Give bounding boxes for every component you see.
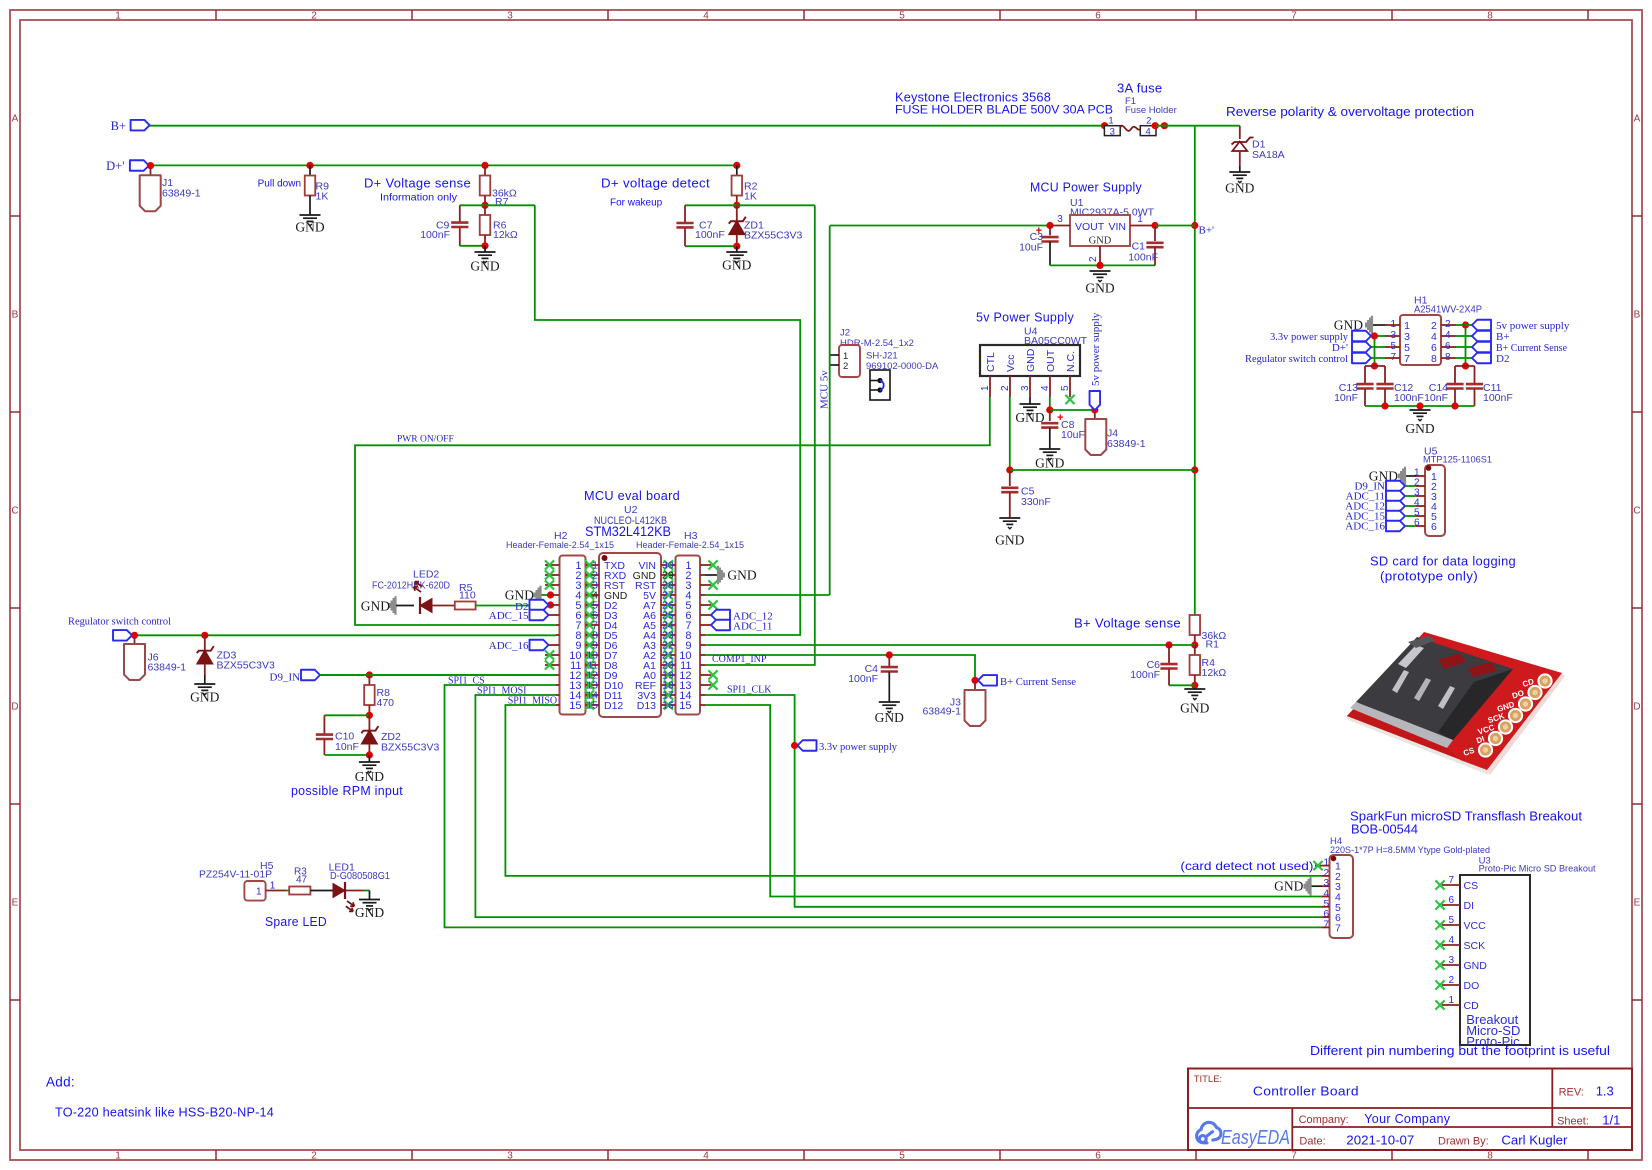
svg-text:8: 8 <box>1487 1151 1493 1162</box>
svg-text:C: C <box>1633 506 1640 517</box>
svg-text:FUSE HOLDER BLADE 500V 30A PCB: FUSE HOLDER BLADE 500V 30A PCB <box>895 103 1113 117</box>
svg-text:B: B <box>12 310 19 321</box>
svg-text:5: 5 <box>1448 915 1454 926</box>
svg-text:ADC_16: ADC_16 <box>1345 521 1385 533</box>
svg-text:100nF: 100nF <box>1128 252 1158 264</box>
svg-text:B+': B+' <box>1199 225 1215 237</box>
svg-text:4: 4 <box>1448 935 1454 946</box>
svg-text:CD: CD <box>1464 1000 1480 1012</box>
svg-text:7: 7 <box>1448 875 1454 886</box>
svg-text:1K: 1K <box>744 191 757 203</box>
svg-text:6: 6 <box>1448 895 1454 906</box>
svg-text:VCC: VCC <box>1464 920 1487 932</box>
svg-text:2: 2 <box>843 361 848 372</box>
svg-text:12kΩ: 12kΩ <box>493 229 518 241</box>
svg-text:D+': D+' <box>106 159 124 173</box>
svg-text:2: 2 <box>1146 116 1151 127</box>
svg-text:Add:: Add: <box>46 1075 75 1090</box>
svg-text:D-G080508G1: D-G080508G1 <box>330 870 390 882</box>
svg-text:100nF: 100nF <box>1394 392 1424 404</box>
svg-text:TITLE:: TITLE: <box>1194 1074 1223 1085</box>
svg-text:D2: D2 <box>1496 353 1509 365</box>
svg-text:C: C <box>11 506 18 517</box>
svg-text:2: 2 <box>1448 975 1454 986</box>
svg-text:VOUT: VOUT <box>1075 221 1105 233</box>
svg-text:15: 15 <box>586 700 598 712</box>
svg-text:330nF: 330nF <box>1021 496 1051 508</box>
svg-text:SA18A: SA18A <box>1252 149 1285 161</box>
svg-text:Header-Female-2.54_1x15: Header-Female-2.54_1x15 <box>636 540 744 551</box>
svg-text:63849-1: 63849-1 <box>162 188 201 200</box>
svg-text:110: 110 <box>459 590 476 602</box>
svg-text:100nF: 100nF <box>420 229 450 241</box>
svg-text:B+: B+ <box>111 119 126 133</box>
svg-text:E: E <box>12 898 19 909</box>
svg-text:GND: GND <box>1464 960 1488 972</box>
svg-text:6: 6 <box>1445 341 1451 352</box>
svg-text:1: 1 <box>1137 214 1143 225</box>
svg-text:(prototype only): (prototype only) <box>1380 569 1478 584</box>
svg-text:Regulator switch control: Regulator switch control <box>68 616 171 628</box>
svg-text:5: 5 <box>1390 341 1396 352</box>
svg-text:GND: GND <box>1025 348 1037 372</box>
svg-text:R1: R1 <box>1206 639 1220 651</box>
svg-text:COMP1_INP: COMP1_INP <box>712 654 767 665</box>
svg-text:100nF: 100nF <box>695 229 725 241</box>
svg-text:63849-1: 63849-1 <box>1107 438 1146 450</box>
svg-text:5: 5 <box>1060 385 1071 391</box>
svg-text:D: D <box>1633 702 1640 713</box>
svg-text:4: 4 <box>703 1151 709 1162</box>
svg-text:6: 6 <box>1431 521 1437 533</box>
svg-text:B+ Voltage sense: B+ Voltage sense <box>1074 616 1181 631</box>
svg-text:1: 1 <box>256 887 262 898</box>
svg-text:GND: GND <box>355 769 384 784</box>
svg-text:1: 1 <box>980 385 991 391</box>
svg-text:A: A <box>12 114 19 125</box>
svg-text:100nF: 100nF <box>1130 669 1160 681</box>
svg-text:Sheet:: Sheet: <box>1557 1116 1589 1128</box>
svg-text:16: 16 <box>662 700 674 712</box>
svg-text:BOB-00544: BOB-00544 <box>1351 823 1418 837</box>
svg-text:Spare LED: Spare LED <box>265 914 327 929</box>
svg-text:GND: GND <box>1089 236 1112 247</box>
svg-text:MCU 5v: MCU 5v <box>819 370 831 409</box>
svg-text:3: 3 <box>1057 214 1063 225</box>
svg-text:E: E <box>1634 898 1641 909</box>
svg-text:Carl Kugler: Carl Kugler <box>1501 1133 1568 1148</box>
svg-text:(card detect not used): (card detect not used) <box>1180 859 1313 873</box>
svg-text:1K: 1K <box>316 191 329 203</box>
svg-text:7: 7 <box>1335 922 1341 934</box>
svg-text:1: 1 <box>1448 995 1454 1006</box>
svg-text:10uF: 10uF <box>1061 429 1085 441</box>
svg-text:SPI1_CLK: SPI1_CLK <box>727 685 772 696</box>
svg-text:ADC_11: ADC_11 <box>733 621 772 633</box>
svg-text:3: 3 <box>507 1151 513 1162</box>
svg-text:1: 1 <box>1108 116 1113 127</box>
svg-text:8: 8 <box>1445 352 1451 363</box>
svg-text:GND: GND <box>995 533 1024 548</box>
svg-text:SCK: SCK <box>1464 940 1486 952</box>
svg-text:D9_IN: D9_IN <box>270 671 301 683</box>
svg-text:63849-1: 63849-1 <box>148 662 187 674</box>
svg-text:GND: GND <box>875 710 904 725</box>
svg-text:1: 1 <box>115 1151 121 1162</box>
svg-text:15: 15 <box>569 700 581 712</box>
svg-text:Different pin numbering but th: Different pin numbering but the footprin… <box>1310 1044 1610 1058</box>
svg-text:2: 2 <box>1000 385 1011 391</box>
svg-text:possible RPM input: possible RPM input <box>291 783 403 798</box>
svg-text:2: 2 <box>311 1151 317 1162</box>
svg-text:FC-2012HRK-620D: FC-2012HRK-620D <box>372 580 450 592</box>
svg-text:GND: GND <box>1015 410 1044 425</box>
svg-text:5v Power Supply: 5v Power Supply <box>976 310 1074 325</box>
svg-text:10nF: 10nF <box>335 741 359 753</box>
svg-text:3: 3 <box>1020 385 1031 391</box>
svg-text:Date:: Date: <box>1299 1136 1325 1148</box>
svg-text:GND: GND <box>1035 456 1064 471</box>
svg-text:Controller Board: Controller Board <box>1253 1084 1359 1099</box>
svg-text:10uF: 10uF <box>1019 242 1043 254</box>
svg-text:7: 7 <box>1291 11 1297 22</box>
svg-text:N.C.: N.C. <box>1065 351 1077 372</box>
svg-text:2: 2 <box>1088 256 1099 262</box>
svg-text:5v power supply: 5v power supply <box>1090 312 1102 386</box>
svg-text:SD card for data logging: SD card for data logging <box>1370 554 1516 569</box>
svg-text:1: 1 <box>1390 319 1396 330</box>
svg-text:STM32L412KB: STM32L412KB <box>585 524 671 539</box>
svg-text:4: 4 <box>1146 126 1151 137</box>
svg-text:J2: J2 <box>840 328 850 339</box>
svg-text:Vcc: Vcc <box>1005 354 1017 372</box>
svg-text:VIN: VIN <box>1108 221 1126 233</box>
svg-text:6: 6 <box>1095 11 1101 22</box>
svg-text:GND: GND <box>295 220 324 235</box>
svg-text:ADC_15: ADC_15 <box>489 610 529 622</box>
svg-text:Regulator switch control: Regulator switch control <box>1245 353 1348 365</box>
svg-text:GND: GND <box>1274 879 1303 894</box>
svg-text:GND: GND <box>361 599 390 614</box>
svg-text:D12: D12 <box>604 700 623 712</box>
svg-text:PWR ON/OFF: PWR ON/OFF <box>397 435 454 445</box>
svg-text:GND: GND <box>470 259 499 274</box>
svg-text:ADC_16: ADC_16 <box>489 640 529 652</box>
svg-text:1: 1 <box>270 881 276 892</box>
svg-text:8: 8 <box>1487 11 1493 22</box>
svg-text:GND: GND <box>355 905 384 920</box>
svg-text:3A fuse: 3A fuse <box>1117 81 1162 96</box>
svg-text:1: 1 <box>115 11 121 22</box>
svg-text:DI: DI <box>1464 900 1475 912</box>
svg-text:Header-Female-2.54_1x15: Header-Female-2.54_1x15 <box>506 540 614 551</box>
svg-text:Information only: Information only <box>380 193 457 204</box>
svg-text:GND: GND <box>1225 181 1254 196</box>
svg-text:47: 47 <box>296 875 308 886</box>
svg-text:GND: GND <box>1085 281 1114 296</box>
svg-text:SparkFun microSD Transflash Br: SparkFun microSD Transflash Breakout <box>1350 810 1583 824</box>
svg-text:DO: DO <box>1464 980 1480 992</box>
svg-text:MTP125-1106S1: MTP125-1106S1 <box>1423 455 1492 466</box>
svg-text:MCU eval board: MCU eval board <box>584 488 680 503</box>
svg-text:A2541WV-2X4P: A2541WV-2X4P <box>1414 304 1482 316</box>
svg-text:3: 3 <box>507 11 513 22</box>
svg-text:220S-1*7P H=8.5MM Ytype Gold-p: 220S-1*7P H=8.5MM Ytype Gold-plated <box>1330 845 1490 856</box>
svg-text:B+ Current Sense: B+ Current Sense <box>1000 676 1076 688</box>
svg-text:5: 5 <box>899 11 905 22</box>
svg-text:OUT: OUT <box>1045 349 1057 372</box>
svg-text:100nF: 100nF <box>1483 392 1513 404</box>
svg-text:1.3: 1.3 <box>1596 1084 1614 1099</box>
svg-text:3: 3 <box>1448 955 1454 966</box>
svg-text:BZX55C3V3: BZX55C3V3 <box>381 742 440 754</box>
svg-text:GND: GND <box>722 258 751 273</box>
svg-text:1/1: 1/1 <box>1602 1113 1620 1128</box>
svg-text:5: 5 <box>899 1151 905 1162</box>
svg-text:Your Company: Your Company <box>1364 1111 1450 1126</box>
svg-text:3: 3 <box>1390 330 1396 341</box>
svg-text:MCU Power Supply: MCU Power Supply <box>1030 180 1142 195</box>
svg-text:7: 7 <box>1390 352 1396 363</box>
svg-text:2: 2 <box>311 11 317 22</box>
svg-text:BZX55C3V3: BZX55C3V3 <box>744 229 803 241</box>
svg-text:2021-10-07: 2021-10-07 <box>1346 1133 1414 1148</box>
svg-text:GND: GND <box>190 690 219 705</box>
svg-text:10nF: 10nF <box>1424 392 1448 404</box>
svg-text:10nF: 10nF <box>1334 392 1358 404</box>
svg-text:D+ Voltage sense: D+ Voltage sense <box>364 176 471 191</box>
svg-text:For wakeup: For wakeup <box>610 198 663 209</box>
svg-text:B: B <box>1634 310 1641 321</box>
svg-text:4: 4 <box>1445 330 1451 341</box>
svg-text:Reverse polarity & overvoltage: Reverse polarity & overvoltage protectio… <box>1226 105 1474 119</box>
svg-text:GND: GND <box>727 568 756 583</box>
svg-text:PZ254V-11-01P: PZ254V-11-01P <box>199 869 272 881</box>
svg-text:15: 15 <box>679 700 691 712</box>
svg-text:12kΩ: 12kΩ <box>1202 667 1227 679</box>
svg-text:4: 4 <box>703 11 709 22</box>
svg-text:SH-J21: SH-J21 <box>866 351 898 362</box>
svg-text:Proto-Pic Micro SD Breakout: Proto-Pic Micro SD Breakout <box>1479 864 1596 875</box>
svg-text:Fuse Holder: Fuse Holder <box>1125 105 1177 116</box>
svg-text:REV:: REV: <box>1559 1087 1584 1099</box>
svg-text:2: 2 <box>1445 319 1451 330</box>
svg-text:470: 470 <box>377 697 395 709</box>
svg-text:7: 7 <box>1404 353 1410 365</box>
svg-text:6: 6 <box>1095 1151 1101 1162</box>
svg-text:7: 7 <box>1291 1151 1297 1162</box>
svg-text:100nF: 100nF <box>848 673 878 685</box>
svg-text:D13: D13 <box>637 700 656 712</box>
svg-text:D+ voltage detect: D+ voltage detect <box>601 176 710 191</box>
svg-text:Drawn By:: Drawn By: <box>1438 1136 1489 1148</box>
svg-text:GND: GND <box>1405 421 1434 436</box>
svg-text:4: 4 <box>1040 385 1051 391</box>
svg-text:TO-220 heatsink like HSS-B20-N: TO-220 heatsink like HSS-B20-NP-14 <box>55 1105 274 1120</box>
svg-text:8: 8 <box>1431 353 1437 365</box>
svg-text:D: D <box>11 702 18 713</box>
svg-text:7: 7 <box>1323 919 1329 930</box>
svg-text:GND: GND <box>1180 701 1209 716</box>
svg-text:CTL: CTL <box>985 352 997 372</box>
svg-text:63849-1: 63849-1 <box>922 706 961 718</box>
svg-text:3.3v power supply: 3.3v power supply <box>819 741 897 753</box>
svg-text:Pull down: Pull down <box>258 179 301 190</box>
svg-text:BZX55C3V3: BZX55C3V3 <box>217 660 276 672</box>
svg-text:Company:: Company: <box>1299 1114 1349 1126</box>
svg-text:3: 3 <box>1110 126 1115 137</box>
svg-text:EasyEDA: EasyEDA <box>1221 1127 1290 1149</box>
svg-text:A: A <box>1634 114 1641 125</box>
svg-text:CS: CS <box>1464 880 1479 892</box>
